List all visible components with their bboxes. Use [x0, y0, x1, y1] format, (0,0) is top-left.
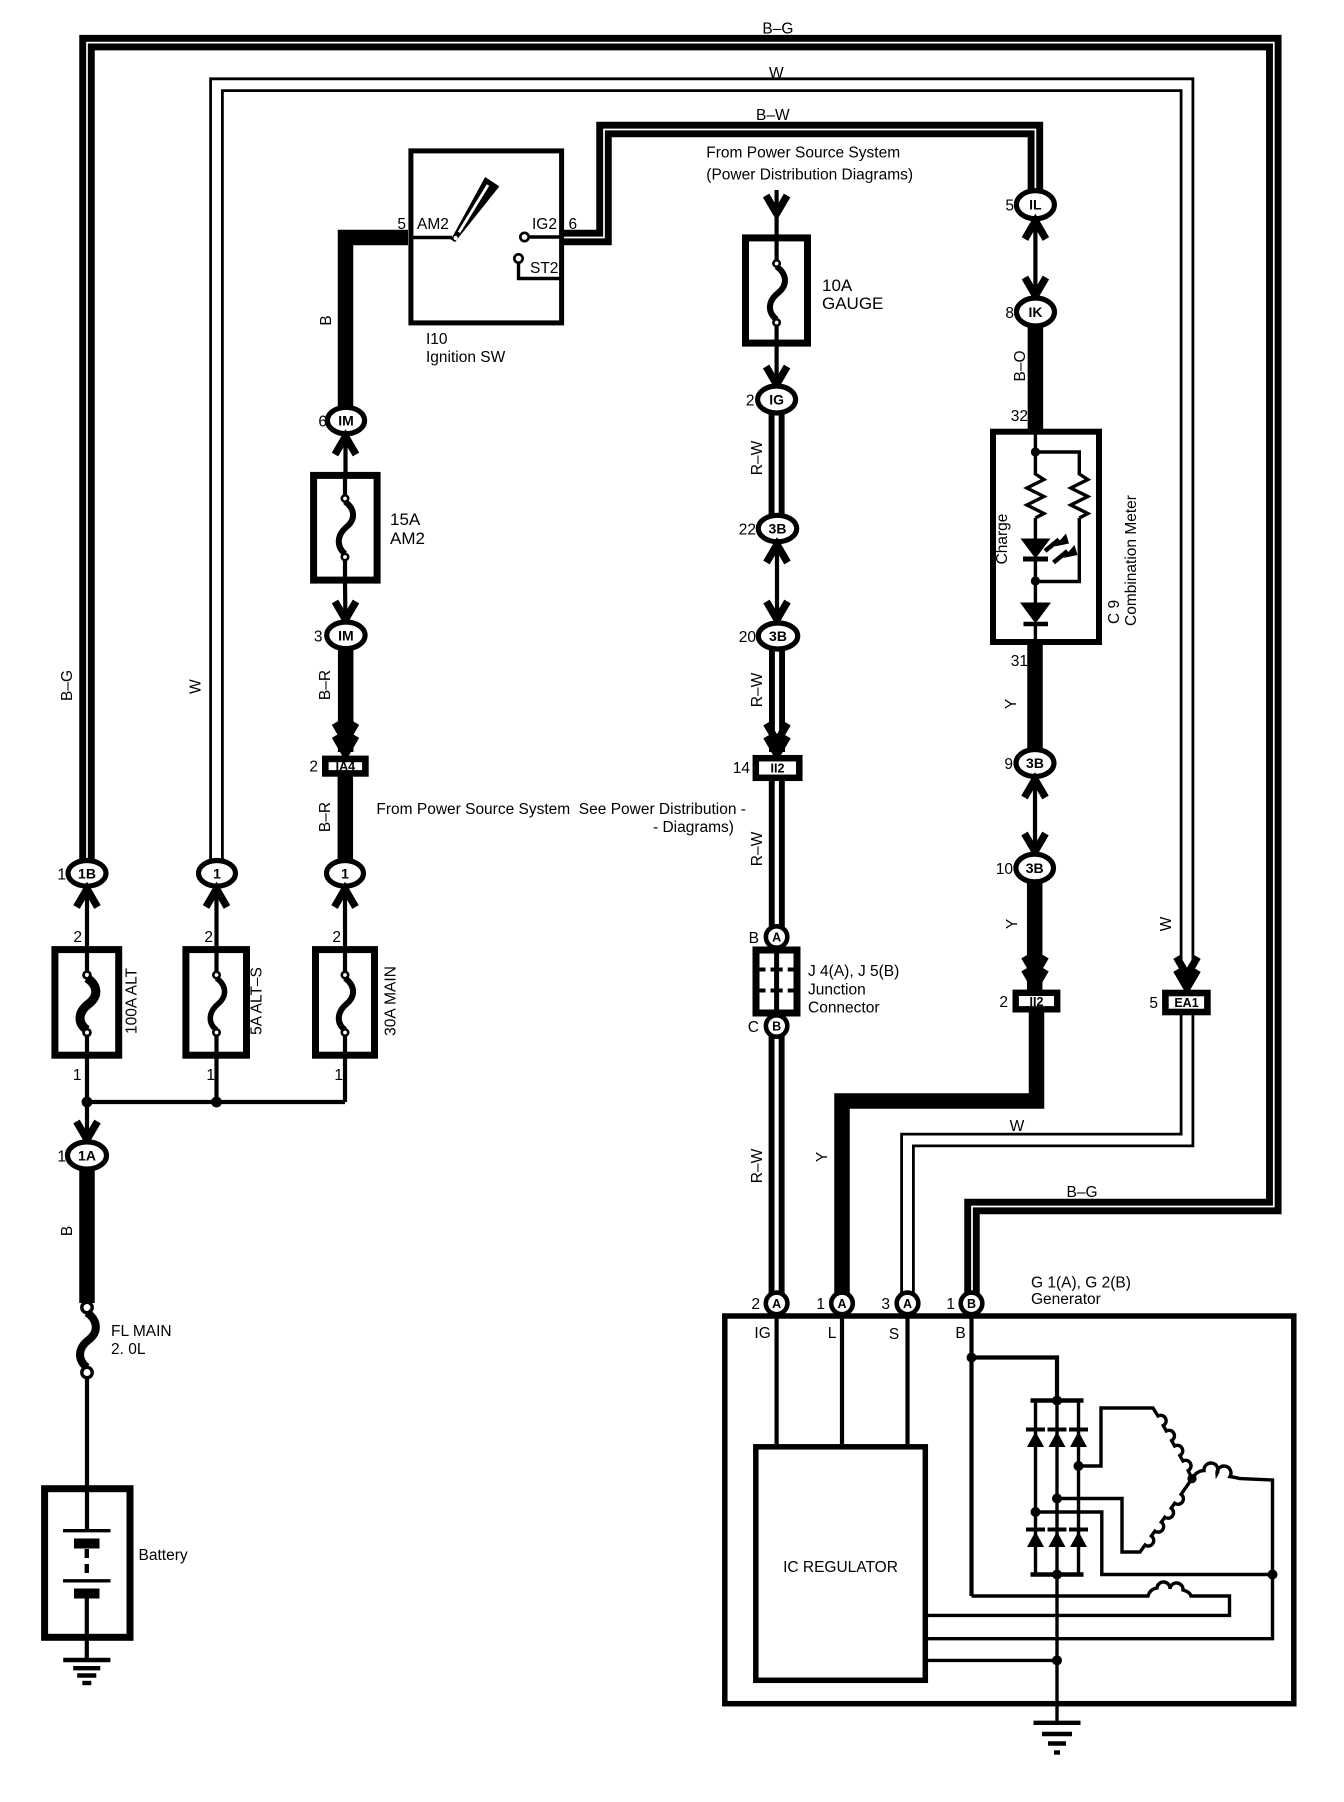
svg-text:30A MAIN: 30A MAIN: [383, 966, 400, 1036]
svg-text:2: 2: [332, 929, 341, 946]
svg-text:2: 2: [746, 393, 755, 410]
svg-text:Junction: Junction: [808, 982, 866, 999]
svg-text:3B: 3B: [769, 628, 787, 644]
wire diode to meter bottom: [1034, 581, 1037, 644]
wire thin 15A fuse to IM: [343, 583, 348, 624]
rectifier bottom bus: [1031, 1572, 1084, 1577]
svg-text:EA1: EA1: [1174, 996, 1198, 1010]
junction dot bus middle: [211, 1097, 222, 1108]
connector 8 IK: [1005, 298, 1054, 326]
wire thin FL MAIN to battery: [85, 1377, 89, 1489]
wire thin connector 1 to 5A ALT-S fuse: [214, 884, 218, 949]
svg-text:2. 0L: 2. 0L: [111, 1341, 146, 1358]
junction dot bus left: [82, 1097, 93, 1108]
wire B-W from ignition switch IG2 to IL: [564, 130, 1036, 238]
svg-text:IG: IG: [754, 1325, 770, 1342]
svg-text:I10: I10: [426, 331, 448, 348]
svg-text:5: 5: [1005, 198, 1014, 215]
connector 3 A generator S: [881, 1293, 918, 1315]
wire thin between 3B pin 9 and 3B pin 10: [1033, 775, 1037, 855]
rectifier center rail: [1055, 1401, 1058, 1575]
svg-text:A: A: [903, 1297, 912, 1311]
svg-text:C 9: C 9: [1106, 600, 1123, 624]
wire thin IM to 15A fuse: [343, 431, 347, 475]
junction dot meter bottom: [1031, 576, 1040, 585]
svg-text:3B: 3B: [1026, 860, 1044, 876]
wire B-G main loop: [87, 43, 1274, 1295]
LED charge indicator: [1021, 534, 1078, 563]
arrow into connector 1 (5A ALT-S): [206, 889, 227, 907]
arrow into 3B 10 top: [1025, 834, 1046, 852]
svg-text:22: 22: [739, 522, 756, 539]
diode meter: [1020, 603, 1051, 625]
svg-text:10: 10: [996, 861, 1014, 878]
wire thin 10A GAUGE fuse to IG: [774, 344, 778, 388]
svg-text:8: 8: [1005, 305, 1014, 322]
wire left phase to right column: [1036, 1512, 1273, 1575]
svg-text:A: A: [772, 1297, 781, 1311]
svg-text:32: 32: [1011, 408, 1028, 425]
wire Y 3B pin 10 to II2 pin 2: [1027, 880, 1043, 990]
wire center rail to generator ground: [1055, 1575, 1058, 1723]
fuse 30A MAIN: [316, 950, 400, 1056]
svg-text:R–W: R–W: [749, 1148, 766, 1183]
svg-text:J 4(A), J 5(B): J 4(A), J 5(B): [808, 963, 899, 980]
connector B A junction top: [749, 926, 788, 947]
wire LED to lower dot: [1034, 561, 1037, 583]
arrow into IM bottom: [335, 437, 356, 455]
svg-text:B–O: B–O: [1012, 350, 1029, 381]
label C 9 Combination Meter: [1106, 495, 1140, 626]
pin 5 label AM2: [397, 216, 449, 233]
rectifier right rail: [1077, 1401, 1080, 1575]
connector 22 3B: [739, 515, 797, 541]
svg-text:II2: II2: [771, 762, 785, 776]
wire B-R from IA4 to connector 1: [338, 776, 354, 863]
junction dot top bus: [1052, 1396, 1062, 1406]
ignition switch IG2 contact: [520, 216, 577, 241]
svg-text:3: 3: [881, 1296, 890, 1313]
resistor left (charge lamp): [1027, 474, 1044, 518]
svg-text:From Power Source System See: From Power Source System See Power Distr…: [376, 801, 746, 818]
wire R-W II2 to junction connector A: [769, 780, 785, 928]
wire R-W junction connector B to generator IG terminal: [769, 1035, 785, 1295]
svg-text:B: B: [967, 1297, 976, 1311]
svg-text:6: 6: [569, 216, 578, 233]
svg-text:2: 2: [73, 929, 82, 946]
note See Power Distribution Diagrams: [376, 801, 746, 836]
svg-text:B: B: [318, 315, 335, 325]
svg-text:- Diagrams): - Diagrams): [653, 819, 734, 836]
svg-text:1: 1: [816, 1296, 825, 1313]
svg-text:B–R: B–R: [317, 802, 334, 832]
double arrow into II2 2: [1025, 957, 1046, 988]
wire 5A ALT-S fuse to bus: [214, 1055, 218, 1102]
svg-text:W: W: [769, 65, 784, 82]
wire thin IL to IK: [1033, 219, 1037, 297]
svg-text:Battery: Battery: [139, 1547, 188, 1564]
wire B-O from IK to combination meter pin 32: [1028, 324, 1044, 429]
rectifier top bus: [1031, 1398, 1084, 1403]
fuse 10A GAUGE: [746, 238, 884, 344]
wire right column to IC regulator pin: [928, 1575, 1273, 1639]
arrow from power source: [766, 196, 787, 214]
svg-text:IA4: IA4: [336, 760, 356, 774]
wire W from EA1 to generator S terminal: [908, 1015, 1188, 1296]
svg-text:IM: IM: [338, 413, 354, 429]
connector 14 II2: [733, 758, 800, 778]
diode D2: [1048, 1430, 1067, 1448]
svg-text:6: 6: [318, 414, 327, 431]
connector 1 1A: [57, 1142, 106, 1169]
wire B from ignition switch AM2 to connector IM: [346, 238, 409, 411]
wire R-W IG to 3B pin 22: [769, 411, 785, 518]
wire Y II2 pin 2 to generator L terminal: [842, 1011, 1037, 1296]
wire thin between 3B connectors: [775, 540, 779, 616]
ground battery: [63, 1660, 110, 1683]
arrow into IG: [766, 367, 787, 385]
stator winding upper: [1079, 1408, 1193, 1479]
svg-text:Y: Y: [1004, 919, 1021, 929]
svg-text:1A: 1A: [78, 1148, 96, 1164]
connector 5 IL: [1005, 191, 1054, 219]
svg-text:2: 2: [999, 994, 1008, 1011]
svg-text:II2: II2: [1030, 995, 1044, 1009]
resistor right: [1071, 474, 1088, 518]
double arrow into IA4: [335, 723, 356, 754]
rectifier left rail: [1034, 1401, 1037, 1575]
connector 5 EA1: [1149, 993, 1207, 1012]
svg-text:FL MAIN: FL MAIN: [111, 1323, 172, 1340]
connector 2 II2 right: [999, 993, 1057, 1011]
stator winding horizontal: [1192, 1463, 1273, 1574]
wire right branch to lower dot: [1035, 518, 1079, 582]
svg-text:A: A: [772, 931, 781, 945]
svg-text:9: 9: [1004, 756, 1013, 773]
generator terminal stub IG: [754, 1308, 776, 1444]
svg-text:Connector: Connector: [808, 1000, 880, 1017]
wire 100A ALT fuse to bus: [85, 1055, 89, 1102]
ignition switch ST2 contact: [514, 254, 563, 278]
svg-text:B–R: B–R: [317, 670, 334, 700]
svg-text:Y: Y: [1003, 699, 1020, 709]
svg-text:IG2: IG2: [532, 216, 557, 233]
combination meter C9 box: [993, 432, 1099, 642]
connector 20 3B: [739, 623, 798, 649]
connector 10 3B: [996, 854, 1054, 882]
svg-text:31: 31: [1011, 653, 1028, 670]
arrow into connector 1B: [77, 889, 98, 907]
connector 1 B generator B: [946, 1293, 982, 1315]
connector 1 A generator L: [816, 1293, 852, 1315]
battery: [45, 1489, 188, 1638]
wire W loop: [217, 85, 1188, 978]
junction dot left rail phase: [1031, 1507, 1041, 1517]
svg-text:G 1(A), G 2(B): G 1(A), G 2(B): [1031, 1275, 1131, 1292]
wire B-R from IM to IA4: [338, 646, 354, 752]
connector 6 IM: [318, 407, 364, 433]
junction dot meter top: [1031, 447, 1040, 456]
svg-text:B: B: [749, 930, 759, 947]
arrow into 3B 22 bottom: [767, 545, 788, 563]
svg-text:3: 3: [314, 628, 323, 645]
svg-text:1: 1: [213, 865, 221, 881]
connector 2 IG: [746, 386, 796, 413]
connector 1 above 5A ALT-S: [199, 861, 236, 887]
svg-text:5: 5: [1149, 995, 1158, 1012]
svg-text:B: B: [772, 1020, 781, 1034]
svg-text:From Power Source System: From Power Source System: [706, 145, 900, 162]
svg-text:IG: IG: [769, 392, 784, 408]
generator terminal stub L: [828, 1308, 842, 1444]
svg-text:IK: IK: [1029, 304, 1043, 320]
diode D1: [1026, 1430, 1045, 1448]
wire B from 1A to FL MAIN: [79, 1167, 95, 1303]
arrow into 3B 9 bottom: [1025, 780, 1046, 798]
svg-text:2: 2: [204, 929, 213, 946]
arrow into connector 1A: [77, 1122, 98, 1140]
junction dot center rail phase: [1052, 1494, 1062, 1504]
stator winding lower: [1057, 1479, 1192, 1552]
fusible link FL MAIN 2.0L: [80, 1302, 172, 1377]
svg-text:Y: Y: [814, 1152, 831, 1162]
svg-text:5A ALT–S: 5A ALT–S: [249, 967, 266, 1035]
svg-text:R–W: R–W: [749, 672, 766, 707]
svg-text:2: 2: [751, 1296, 760, 1313]
svg-text:3B: 3B: [769, 521, 787, 537]
svg-text:R–W: R–W: [749, 831, 766, 866]
wire bus joining fuse bottoms: [87, 1100, 345, 1104]
rotor field coil: [928, 1582, 1230, 1615]
svg-text:10A: 10A: [822, 276, 853, 295]
svg-text:1: 1: [946, 1296, 955, 1313]
connector 9 3B: [1004, 750, 1054, 777]
svg-text:14: 14: [733, 760, 751, 777]
diode D5: [1048, 1530, 1067, 1548]
svg-text:Combination Meter: Combination Meter: [1123, 495, 1140, 626]
wire 30A MAIN fuse to bus: [343, 1055, 347, 1102]
svg-text:20: 20: [739, 629, 757, 646]
ground generator: [1034, 1723, 1081, 1753]
svg-text:(Power Distribution Diagrams): (Power Distribution Diagrams): [706, 167, 913, 184]
junction dot B stub: [967, 1353, 977, 1363]
diode D6: [1069, 1530, 1088, 1548]
svg-text:AM2: AM2: [390, 529, 425, 548]
svg-text:15A: 15A: [390, 510, 421, 529]
wire thin arrow from power source system: [774, 190, 778, 238]
svg-text:1: 1: [341, 865, 349, 881]
svg-text:A: A: [837, 1297, 846, 1311]
generator terminal stub S: [889, 1308, 908, 1444]
svg-text:B: B: [955, 1325, 965, 1342]
svg-text:B: B: [59, 1226, 76, 1236]
wire battery to ground: [85, 1637, 89, 1660]
svg-text:AM2: AM2: [417, 216, 449, 233]
svg-text:IM: IM: [338, 627, 354, 643]
svg-text:B–G: B–G: [762, 21, 793, 38]
diode D4: [1026, 1530, 1045, 1548]
junction connector J4 J5: [756, 950, 899, 1017]
generator G1 G2 box: [725, 1275, 1294, 1704]
ignition switch AM2 contact and lever: [412, 178, 498, 240]
svg-text:R–W: R–W: [749, 440, 766, 475]
meter internal wire from pin 32: [1034, 432, 1037, 475]
svg-text:C: C: [748, 1019, 759, 1036]
svg-text:IC REGULATOR: IC REGULATOR: [783, 1559, 898, 1576]
arrow into IK top: [1025, 278, 1046, 296]
connector C B junction bottom: [748, 1015, 788, 1036]
svg-text:L: L: [828, 1325, 837, 1342]
svg-text:W: W: [1010, 1118, 1025, 1135]
svg-text:W: W: [1158, 916, 1175, 931]
svg-text:100A ALT: 100A ALT: [124, 967, 141, 1034]
svg-text:S: S: [889, 1326, 899, 1343]
junction dot right column: [1268, 1570, 1278, 1580]
connector 2 A generator IG: [751, 1293, 787, 1315]
fuse 100A ALT: [55, 950, 141, 1056]
meter parallel branch wire: [1035, 452, 1079, 475]
junction dot ground wire: [1052, 1655, 1062, 1665]
IC regulator box: [756, 1447, 926, 1681]
wire thin connector 1 to 30A MAIN fuse: [343, 884, 347, 949]
svg-text:ST2: ST2: [530, 260, 558, 277]
svg-text:Charge: Charge: [994, 514, 1011, 565]
svg-text:B–G: B–G: [1066, 1184, 1097, 1201]
connector 1 1B: [57, 861, 106, 887]
arrow into 3 IM top: [335, 602, 356, 620]
junction dot bottom bus: [1052, 1570, 1062, 1580]
svg-text:Generator: Generator: [1031, 1291, 1101, 1308]
svg-text:B–G: B–G: [59, 670, 76, 701]
fuse 15A AM2: [314, 475, 425, 580]
wire Y meter pin 31 to 3B pin 9: [1027, 644, 1043, 752]
svg-text:5: 5: [397, 216, 406, 233]
fuse 5A ALT-S: [186, 950, 266, 1056]
svg-text:GAUGE: GAUGE: [822, 294, 883, 313]
double arrow into EA1: [1177, 957, 1198, 988]
generator terminal stub B: [955, 1308, 971, 1596]
diode D3: [1069, 1430, 1088, 1448]
svg-text:1: 1: [206, 1067, 215, 1084]
wire R-W 3B pin 20 to II2 pin 14: [769, 648, 785, 752]
svg-text:1: 1: [334, 1067, 343, 1084]
wire thin 1B to 100A ALT fuse: [85, 884, 89, 949]
svg-text:1B: 1B: [78, 865, 96, 881]
wire resistor to LED: [1034, 518, 1037, 539]
svg-text:2: 2: [309, 759, 318, 776]
svg-text:3B: 3B: [1026, 755, 1044, 771]
wire bus to connector 1A: [85, 1102, 89, 1144]
connector 2 IA4: [309, 759, 365, 776]
svg-text:1: 1: [57, 1149, 66, 1166]
junction dot right rail phase: [1074, 1461, 1084, 1471]
ignition switch I10: [411, 151, 562, 366]
note From Power Source System: [706, 145, 913, 184]
junction dot stator neutral: [1187, 1474, 1196, 1483]
arrow into 3B 20 top: [767, 602, 788, 620]
wire IC regulator ground pin to center rail: [928, 1659, 1057, 1662]
svg-text:1: 1: [73, 1067, 82, 1084]
double arrow into II2 14: [767, 724, 788, 755]
svg-text:1: 1: [57, 866, 66, 883]
svg-text:W: W: [187, 679, 204, 694]
arrow into connector 1 (30A MAIN): [335, 889, 356, 907]
svg-text:B–W: B–W: [756, 107, 790, 124]
arrow into IL bottom: [1025, 221, 1046, 239]
connector 3 IM: [314, 622, 365, 649]
wire B stub to rectifier top bus: [972, 1358, 1058, 1403]
connector 1 above 30A MAIN: [327, 861, 364, 887]
svg-text:Ignition SW: Ignition SW: [426, 349, 506, 366]
svg-text:IL: IL: [1029, 197, 1042, 213]
